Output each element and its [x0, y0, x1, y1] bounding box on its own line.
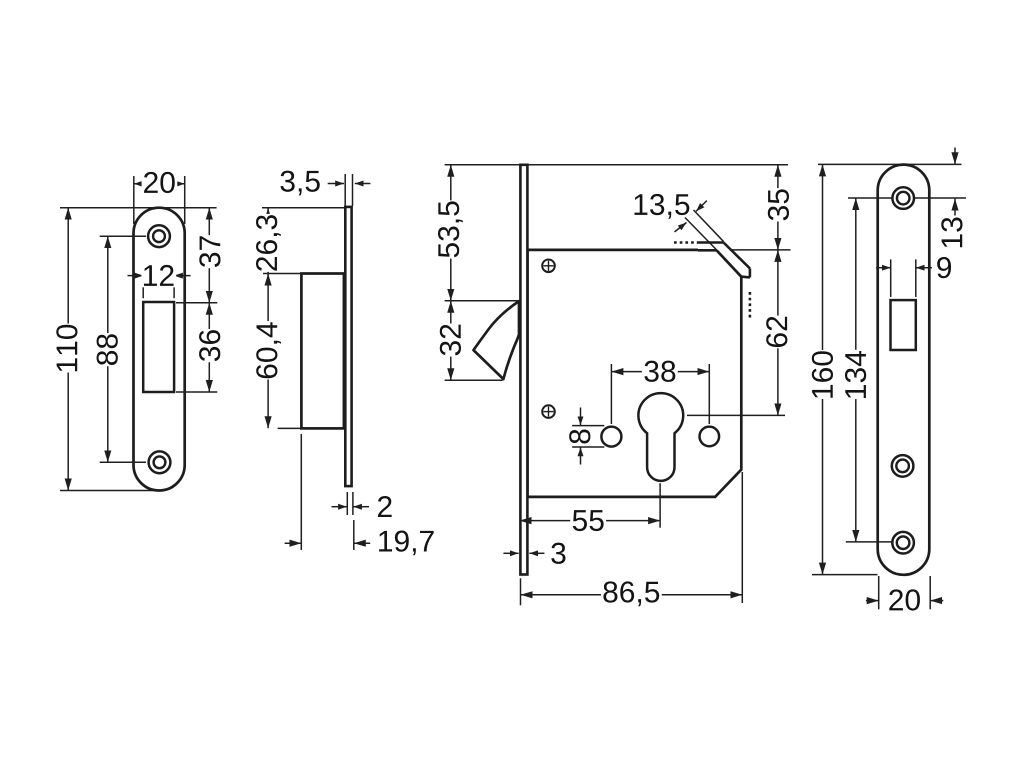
side view faceplate strip	[345, 207, 351, 486]
dimension 13 arrows	[954, 148, 956, 165]
extension lines for 38	[610, 364, 612, 424]
faceplate middle screw hole	[892, 455, 914, 477]
dimension label 20 faceplate	[889, 589, 920, 610]
dimension label 35	[766, 188, 790, 221]
case chamfer top right	[717, 250, 742, 276]
faceplate top extension line	[818, 163, 962, 165]
extension line body bottom	[278, 427, 301, 429]
dimension label 3	[551, 543, 565, 564]
dimension 134 line	[855, 198, 857, 542]
dimension 53,5 line	[450, 165, 452, 301]
extension lines for 19,7	[300, 434, 302, 550]
extension lines for cutout width 12	[142, 268, 144, 298]
dimension 37 line	[208, 208, 210, 303]
dimension 88 line	[107, 236, 109, 462]
case top edge below pin	[698, 249, 717, 252]
extension line below cylinder	[659, 483, 661, 528]
strike plate top edge extension line	[60, 207, 217, 209]
trigger pin retracted dotted line horizontal	[674, 241, 698, 244]
dimension 9 arrows	[876, 267, 891, 269]
dimension label 32	[438, 324, 462, 357]
strike plate bottom screw hole	[149, 451, 171, 473]
dimension 110 line	[67, 208, 69, 491]
case screw hole bottom	[542, 405, 555, 418]
dimension 19,7 arrows	[285, 542, 302, 544]
trigger pin top edge	[698, 241, 724, 244]
leader line D1 for 13,5	[694, 210, 724, 242]
extension line case top right (behind trigger pin)	[717, 249, 791, 251]
dimension 3 arrows	[503, 552, 518, 554]
extension lines cutout top/bottom	[176, 302, 217, 304]
extension line through top screw center	[848, 197, 966, 199]
dimension 26,3 line	[267, 208, 269, 274]
dimension label 60,4	[255, 321, 283, 379]
trigger pin (white overlay)	[698, 243, 750, 278]
extension line strip bottom	[520, 578, 522, 605]
extension lines for width 20	[133, 176, 135, 224]
dimension 8 arrows	[580, 408, 582, 426]
dimension label 2	[378, 496, 392, 517]
dimension label 62	[765, 316, 789, 349]
dimension label 19,7	[379, 531, 434, 556]
faceplate (right view)	[878, 165, 930, 575]
arrow to D1	[696, 201, 707, 212]
strike plate view (left)	[134, 208, 185, 491]
dimension 86,5 line	[521, 594, 743, 596]
small circle left	[601, 427, 621, 447]
extension line hook bottom	[445, 379, 503, 381]
extension lines for width 20	[878, 576, 880, 609]
extension lines for 9	[890, 259, 892, 297]
faceplate bottom screw hole	[892, 532, 914, 554]
extension line bottom screw center	[100, 461, 146, 463]
side view body block	[301, 274, 344, 429]
dimension label 3,5	[280, 171, 319, 196]
strike plate top screw hole	[148, 225, 170, 247]
euro profile cylinder hole	[638, 393, 683, 481]
dimension label 160	[810, 350, 834, 399]
dimension label 37	[198, 235, 222, 268]
hook bolt	[474, 301, 520, 379]
dimension label 20	[142, 170, 178, 194]
lock case body	[528, 250, 742, 497]
dimension 12 arrows	[128, 275, 144, 277]
trigger pin front diagonal edge	[724, 243, 750, 269]
dimension label 8	[569, 429, 590, 443]
case screw hole top	[542, 260, 555, 273]
faceplate cutout	[891, 300, 916, 350]
dimension 60,4 line	[267, 274, 269, 429]
faceplate top screw hole	[892, 187, 914, 209]
extension line hook top	[445, 300, 519, 302]
dimension label 88	[95, 333, 119, 366]
dimension label 9	[937, 257, 951, 278]
trigger pin bottom edge	[741, 275, 750, 278]
dimension label 55	[570, 509, 606, 533]
extension lines for 3,5	[344, 174, 346, 206]
extension line cylinder center	[687, 414, 785, 416]
extension line faceplate bottom	[812, 574, 878, 576]
dimension label 38	[642, 359, 678, 383]
strike plate bottom edge extension line	[60, 490, 159, 492]
dimension label 110	[55, 324, 79, 373]
extension line strip top left	[262, 207, 344, 209]
cutout rectangle of strike plate	[143, 302, 174, 392]
arrow to D2	[675, 223, 687, 232]
dimension 36 line	[208, 303, 210, 392]
dimension 20 arrows (faceplate)	[866, 600, 879, 602]
extension line top screw center	[100, 235, 146, 237]
dimension label 36	[198, 329, 222, 362]
dimension 3,5 arrows	[328, 183, 344, 185]
dimension label 86,5	[601, 580, 662, 608]
dimension 62 line	[777, 250, 779, 416]
trigger pin retracted dotted line vertical	[749, 292, 752, 319]
dimension 55 line	[520, 520, 661, 522]
trigger pin end face	[749, 268, 752, 277]
extension lines for 8	[572, 425, 604, 427]
dimension 160 line	[822, 164, 824, 574]
dimension label 53,5	[437, 200, 465, 258]
dimension label 12	[142, 263, 177, 287]
extension lines for thickness 2	[346, 492, 348, 515]
dimension label 26,3	[255, 214, 283, 272]
dimension label 134	[844, 350, 868, 399]
main faceplate strip	[520, 165, 527, 575]
dimension label 13,5	[634, 194, 689, 219]
lock case top extension line	[445, 164, 788, 166]
dimension 32 line	[450, 301, 452, 380]
extension line body top	[263, 273, 300, 275]
dimension label 13	[941, 218, 962, 248]
dimension 2 arrows	[332, 506, 347, 508]
dimension 35 line	[777, 165, 779, 250]
dimension 20 line	[134, 183, 185, 185]
leader line D2 for 13,5	[685, 218, 716, 250]
small circle right	[700, 427, 720, 447]
extension line bottom screw center	[846, 541, 893, 543]
dimension 38 line	[611, 371, 709, 373]
extension line case right for 86,5	[741, 472, 743, 603]
